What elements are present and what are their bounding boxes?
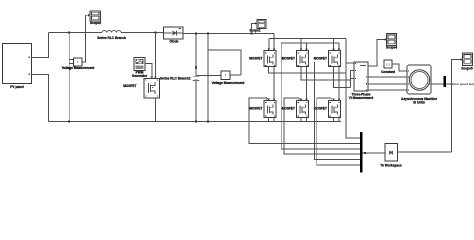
node VM2 riser top <box>207 33 209 35</box>
bus selector <box>444 76 446 87</box>
wire chain M2-M5 <box>306 67 308 101</box>
constant Tm <box>381 60 396 74</box>
node mux out <box>364 152 366 154</box>
svg-text:Constant: Constant <box>381 70 396 74</box>
wire gate loop M5 <box>284 98 360 154</box>
PV panel block <box>3 44 32 90</box>
transistor boost MOSFET <box>123 77 159 99</box>
wire DC+ bus <box>49 32 103 34</box>
svg-text:MOSFET: MOSFET <box>314 57 327 61</box>
block rms <box>380 144 402 168</box>
svg-text:Voltage Measurement: Voltage Measurement <box>62 66 96 70</box>
svg-text:MOSFET: MOSFET <box>249 57 262 61</box>
wire M6 sources to rail <box>333 118 335 122</box>
wire scope1 tap <box>252 23 256 33</box>
wire phase B <box>301 67 351 80</box>
svg-text:SI Units: SI Units <box>413 101 425 105</box>
node cap top <box>195 33 197 35</box>
wire machine m output <box>431 83 444 85</box>
transistor M5 <box>282 99 309 118</box>
wire bridge drain corner <box>273 34 275 51</box>
wire Tm to machine <box>392 64 407 71</box>
svg-text:MOSFET: MOSFET <box>123 84 136 88</box>
PWM generator P1 <box>132 58 148 79</box>
svg-text:Series RLC Branch2: Series RLC Branch2 <box>160 77 191 81</box>
three-phase VI measurement <box>349 62 374 100</box>
svg-text:PV panel: PV panel <box>10 85 24 89</box>
transistor M3 <box>314 49 341 67</box>
wire phase A <box>269 67 346 73</box>
mux <box>360 132 362 173</box>
wire rms out to riser <box>398 151 452 153</box>
wire mux out <box>362 152 385 154</box>
wire VM1 to scope2 <box>82 15 90 62</box>
wire VM1 drop <box>68 33 70 122</box>
diode D1 <box>164 27 184 44</box>
wire PV+ to bus <box>32 33 49 58</box>
wire chain M3-M6 <box>338 67 340 101</box>
wire rotor speed <box>446 83 451 85</box>
svg-text:MOSFET: MOSFET <box>249 107 262 111</box>
scope Scope4 top right <box>385 34 398 50</box>
wire bottom rail <box>49 121 342 123</box>
wire VI outputs to machine <box>368 76 407 78</box>
scope Scope2 <box>88 11 101 25</box>
svg-text:|u|: |u| <box>389 150 393 154</box>
wire gate loop M4 <box>249 98 360 144</box>
svg-text:Diode: Diode <box>170 40 179 44</box>
wire H3 left drop to mux <box>281 43 360 149</box>
svg-text:To Workspace: To Workspace <box>380 164 402 168</box>
transistor M2 <box>282 49 309 67</box>
svg-text:MOSFET: MOSFET <box>314 107 327 111</box>
svg-text:Voltage Measurement: Voltage Measurement <box>212 81 246 85</box>
wire M5 sources to rail <box>300 118 302 122</box>
node cap bottom <box>195 121 197 123</box>
svg-text:Scope2: Scope2 <box>90 21 102 25</box>
wire boost source to rail <box>154 98 156 122</box>
wire gate bus H2 <box>269 38 346 40</box>
svg-text:0.1: 0.1 <box>386 63 390 67</box>
svg-text:<Rotor speed (wm)>: <Rotor speed (wm)> <box>450 82 474 86</box>
wire bus H3 <box>281 42 339 44</box>
inductor L1 coil <box>102 31 121 33</box>
wire bus diode to bridge <box>183 33 274 35</box>
wire phase C <box>334 67 351 88</box>
voltage measurement VM2 with loop <box>196 50 245 85</box>
node VM2 riser bottom <box>207 121 209 123</box>
transistor M6 <box>314 99 341 118</box>
transistor M1 <box>249 49 276 67</box>
wire chain M1-M4 <box>273 67 275 101</box>
capacitor C branch <box>160 34 199 122</box>
wire VI-B VI-C feeder <box>350 71 352 88</box>
node boost drain <box>154 32 156 34</box>
svg-text:MOSFET: MOSFET <box>282 57 295 61</box>
svg-text:Scope4: Scope4 <box>386 45 398 49</box>
asynchronous machine <box>401 65 437 105</box>
node VM1 bottom <box>68 121 70 123</box>
wire bus L to diode <box>121 32 163 34</box>
wire PV- down to rail <box>32 75 49 122</box>
wire long riser to scope5 <box>452 60 463 152</box>
wire PWM to boost gate <box>145 64 152 79</box>
scope Scope5 far right <box>461 53 473 71</box>
svg-text:VI Measurement: VI Measurement <box>349 96 374 100</box>
node scope1 tap <box>251 33 253 35</box>
wire drop to mux5 <box>315 62 361 160</box>
wire boost drain drop <box>154 33 156 79</box>
wire gate loop M6 <box>317 98 360 165</box>
svg-text:Generator: Generator <box>132 74 148 78</box>
transistor M4 <box>249 99 276 118</box>
scope Scope1 above bridge <box>249 20 266 33</box>
wire VI-A feeder vertical <box>346 39 360 139</box>
svg-text:Series RLC Branch: Series RLC Branch <box>97 36 126 40</box>
svg-text:Scope5: Scope5 <box>461 67 473 71</box>
wire VM2 riser <box>207 34 209 122</box>
node VM1 top <box>68 32 70 34</box>
wire Vabc to scope4 <box>368 40 387 67</box>
voltage measurement VM1 <box>62 58 96 70</box>
wire M4 sources to rail <box>268 118 270 122</box>
